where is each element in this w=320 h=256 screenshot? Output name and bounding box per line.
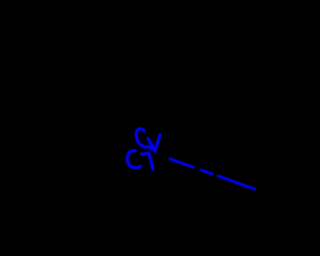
wire segment 2 (dash) (201, 170, 212, 174)
digit 5 flag bar (149, 153, 153, 170)
wire segment 1 (170, 159, 193, 167)
digit 5 stem (142, 153, 149, 154)
digit 3 bowl (136, 129, 151, 149)
digit 3 V (diagonal + top bar) (148, 135, 160, 151)
wire segment 3 (218, 176, 257, 190)
digit 5 bowl (127, 151, 140, 168)
